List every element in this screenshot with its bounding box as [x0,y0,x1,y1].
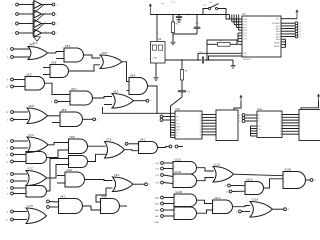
svg-text:1: 1 [102,65,103,67]
svg-text:1: 1 [156,146,157,148]
svg-text:x-on: x-on [161,3,165,5]
svg-text:U9:B: U9:B [102,195,108,198]
svg-text:U5:B: U5:B [51,61,57,64]
svg-text:1: 1 [215,176,216,178]
svg-text:U8:D: U8:D [70,136,76,139]
svg-text:1: 1 [114,186,115,188]
svg-text:U8:B: U8:B [61,109,67,112]
svg-text:2: 2 [45,3,46,5]
svg-text:U13:B: U13:B [285,168,292,171]
svg-text:1: 1 [30,47,31,49]
svg-text:1: 1 [195,211,196,213]
svg-text:1: 1 [102,57,103,59]
svg-text:P3.1: P3.1 [243,33,247,35]
svg-text:1: 1 [67,69,68,71]
svg-text:1: 1 [46,51,47,53]
svg-text:U9:A: U9:A [114,174,120,177]
svg-text:1: 1 [195,177,196,179]
svg-text:1: 1 [252,210,253,212]
svg-text:1: 1 [61,121,62,123]
svg-text:1: 1 [70,141,71,143]
svg-text:1: 1 [146,84,147,86]
svg-text:1: 1 [231,205,232,207]
svg-text:U5:A: U5:A [65,45,71,48]
svg-text:1: 1 [175,208,176,210]
svg-text:1: 1 [174,182,175,184]
svg-text:U7:D: U7:D [28,205,34,208]
svg-text:G1: G1 [258,126,260,128]
svg-text:1: 1 [27,160,28,162]
svg-text:U7:A: U7:A [29,134,35,137]
svg-text:XT2: XT2 [243,53,246,55]
svg-text:1: 1 [91,96,92,98]
svg-text:AD6: AD6 [276,38,280,41]
svg-text:1: 1 [27,179,28,181]
svg-text:T0: T0 [176,132,178,134]
svg-text:P3.2: P3.2 [243,36,247,38]
svg-text:U8:C: U8:C [140,138,146,141]
svg-text:1: 1 [113,95,114,97]
svg-text:1: 1 [51,66,52,68]
svg-text:U11:B: U11:B [175,171,182,174]
svg-text:1: 1 [106,153,107,155]
svg-text:P1.1: P1.1 [243,22,247,24]
svg-text:1: 1 [70,148,71,150]
svg-text:1: 1 [174,162,175,164]
svg-text:1: 1 [284,181,285,183]
svg-text:1: 1 [271,208,272,210]
svg-text:U11:D: U11:D [214,163,221,166]
svg-text:GND: GND [155,222,160,224]
svg-text:1: 1 [31,3,32,5]
svg-text:1: 1 [71,93,72,95]
svg-text:1: 1 [140,149,141,151]
svg-text:1: 1 [130,80,131,82]
svg-text:1: 1 [284,174,285,176]
svg-text:1: 1 [175,202,176,204]
svg-text:1: 1 [140,142,141,144]
svg-text:U7:C: U7:C [28,167,34,170]
svg-text:1: 1 [83,178,84,180]
svg-text:1: 1 [60,200,61,202]
svg-text:1: 1 [26,85,27,87]
svg-text:U6:C: U6:C [71,88,77,91]
svg-text:PL_O: PL_O [171,2,176,4]
svg-text:AD1: AD1 [276,25,280,28]
svg-text:AD4: AD4 [276,33,280,36]
svg-text:1: 1 [82,53,83,55]
svg-text:1: 1 [130,89,131,91]
svg-text:ALE/P: ALE/P [274,45,280,48]
svg-text:1: 1 [252,204,253,206]
svg-text:2: 2 [45,22,46,24]
svg-text:1: 1 [174,167,175,169]
svg-text:U6:D: U6:D [29,105,35,108]
svg-text:1: 1 [65,50,66,52]
svg-text:1: 1 [65,59,66,61]
svg-text:1: 1 [31,31,32,33]
svg-text:1: 1 [27,187,28,189]
svg-text:1: 1 [102,200,103,202]
svg-text:1: 1 [262,186,263,188]
svg-text:P0.0/AD0: P0.0/AD0 [272,22,280,25]
svg-text:0: 0 [239,115,240,117]
svg-text:XT1: XT1 [243,56,246,58]
svg-text:1: 1 [215,169,216,171]
svg-text:1: 1 [118,204,119,206]
svg-text:1: 1 [304,178,305,180]
svg-text:INT0: INT0 [176,126,180,128]
svg-text:1: 1 [70,157,71,159]
svg-text:1: 1 [113,103,114,105]
svg-text:U13:A: U13:A [252,198,259,201]
svg-text:P3.3: P3.3 [243,39,247,41]
svg-text:1: 1 [175,196,176,198]
svg-text:P1.2: P1.2 [243,25,247,27]
svg-text:1: 1 [60,205,61,207]
svg-text:1: 1 [46,114,47,116]
svg-text:1: 1 [43,81,44,83]
svg-text:1: 1 [70,163,71,165]
svg-text:1: 1 [81,204,82,206]
svg-text:U8:E: U8:E [67,169,73,172]
svg-text:1: 1 [27,172,28,174]
svg-text:U4:A: U4:A [29,43,35,46]
svg-text:1: 1 [28,110,29,112]
svg-text:1: 1 [120,60,121,62]
svg-text:1: 1 [51,73,52,75]
svg-text:U5:D: U5:D [26,73,32,76]
svg-text:1: 1 [239,118,240,120]
svg-text:2: 2 [239,121,240,123]
svg-text:U12:A: U12:A [246,178,253,181]
svg-text:X2: X2 [176,120,178,122]
svg-text:1: 1 [27,218,28,220]
svg-text:U14: U14 [258,108,263,111]
svg-text:P3.0: P3.0 [243,30,247,32]
svg-text:1: 1 [106,145,107,147]
svg-text:1: 1 [30,55,31,57]
svg-text:1: 1 [61,114,62,116]
svg-text:1: 1 [66,174,67,176]
svg-text:INT1: INT1 [176,129,180,131]
svg-text:1: 1 [81,117,82,119]
svg-text:U6:A: U6:A [113,90,119,93]
svg-text:U6:B: U6:B [102,52,108,55]
svg-text:AD5: AD5 [276,35,280,38]
svg-text:1: 1 [66,181,67,183]
svg-text:U7:B: U7:B [106,138,112,141]
svg-text:AD3: AD3 [276,30,280,33]
svg-text:1: 1 [175,214,176,216]
svg-text:U12:B: U12:B [176,191,183,194]
svg-text:U11:A: U11:A [214,197,221,200]
svg-text:x-on: x-on [203,4,207,6]
svg-text:GND/VCC: GND/VCC [243,59,252,61]
svg-text:1: 1 [28,146,29,148]
svg-text:X1: X1 [176,116,178,118]
svg-text:1: 1 [31,22,32,24]
svg-text:U10: U10 [176,108,181,111]
svg-text:1: 1 [28,139,29,141]
svg-text:1: 1 [102,208,103,210]
svg-text:1: 1 [71,100,72,102]
svg-text:1: 1 [195,165,196,167]
svg-text:U9:C: U9:C [60,195,66,198]
svg-text:EA/VP: EA/VP [274,42,280,45]
svg-text:1: 1 [28,118,29,120]
svg-text:G2: G2 [258,129,260,131]
svg-text:1: 1 [27,153,28,155]
svg-text:1: 1 [46,143,47,145]
svg-text:1: 1 [214,208,215,210]
svg-text:1: 1 [27,192,28,194]
svg-text:1: 1 [26,78,27,80]
svg-text:2: 2 [45,12,46,14]
svg-text:VCC: VCC [276,19,281,21]
svg-text:1: 1 [114,179,115,181]
svg-text:1: 1 [232,173,233,175]
svg-text:1: 1 [27,210,28,212]
svg-text:1: 1 [31,12,32,14]
svg-text:T1: T1 [176,135,178,137]
svg-text:1: 1 [246,184,247,186]
svg-text:1: 1 [246,190,247,192]
svg-text:1: 1 [123,148,124,150]
svg-text:1: 1 [131,183,132,185]
svg-text:U11:C: U11:C [175,158,182,161]
svg-text:U8:A: U8:A [130,74,136,77]
svg-text:2: 2 [45,31,46,33]
svg-text:1: 1 [86,145,87,147]
svg-text:AD2: AD2 [276,27,280,30]
svg-text:P1.0: P1.0 [243,19,247,21]
svg-text:1: 1 [195,199,196,201]
svg-text:1: 1 [214,202,215,204]
svg-text:1: 1 [174,175,175,177]
svg-text:1: 1 [131,99,132,101]
